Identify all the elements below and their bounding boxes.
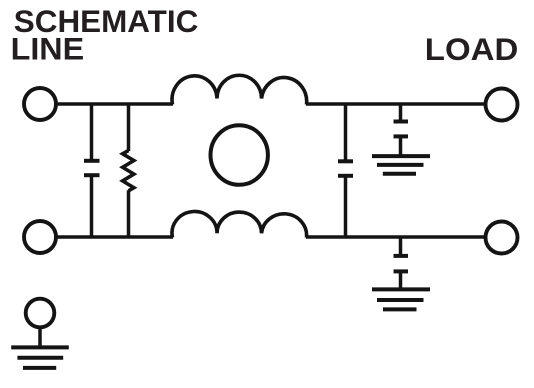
capacitor C3 plates <box>394 122 409 137</box>
terminal chassis <box>26 299 55 328</box>
wire capacitor C4 top lead <box>399 236 403 257</box>
wire capacitor C3 ground lead <box>399 136 403 156</box>
ground top-right <box>372 156 430 174</box>
svg-text:LOAD: LOAD <box>425 31 519 67</box>
wire resistor R1 bottom lead <box>127 190 131 238</box>
inductor L1 bottom winding <box>172 212 307 238</box>
capacitor C2 plates <box>338 161 353 176</box>
core circle of common-mode choke <box>211 125 268 185</box>
terminal line-top <box>24 88 56 120</box>
wire capacitor C2 bottom lead <box>344 176 348 239</box>
terminal line-bottom <box>24 221 56 253</box>
wire capacitor C2 top lead <box>344 103 348 162</box>
wire capacitor C1 top lead <box>90 103 94 161</box>
capacitor C4 plates <box>394 256 409 272</box>
wire top-left segment <box>57 102 173 106</box>
wire bottom-left segment <box>57 235 173 239</box>
wire bottom-right segment <box>306 235 484 239</box>
ground bottom-right <box>372 289 430 309</box>
wire capacitor C4 ground lead <box>399 271 403 289</box>
wire resistor R1 top lead <box>127 103 131 152</box>
wire chassis ground lead <box>38 329 42 347</box>
capacitor C1 plates <box>84 161 100 175</box>
ground chassis <box>11 347 69 368</box>
resistor R1 zigzag <box>123 151 134 191</box>
wire capacitor C3 top lead <box>399 103 403 122</box>
terminal load-bottom <box>486 222 518 254</box>
svg-text:LINE: LINE <box>11 31 85 67</box>
wire capacitor C1 bottom lead <box>90 175 94 238</box>
wire top-right segment <box>306 102 484 106</box>
terminal load-top <box>486 89 518 121</box>
inductor L1 top winding <box>172 75 307 104</box>
